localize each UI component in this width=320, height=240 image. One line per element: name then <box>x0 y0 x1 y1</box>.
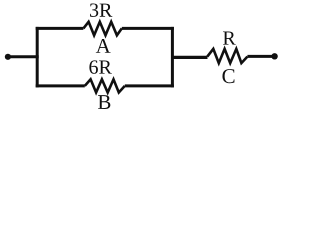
label: designator C <box>222 69 234 83</box>
label: designator B <box>98 95 110 109</box>
wire: top branch left segment <box>36 27 84 30</box>
resistor A value 3R <box>83 22 121 36</box>
label: value R of resistor C <box>223 32 236 45</box>
resistor B value 6R <box>85 79 125 92</box>
resistor C value R <box>207 49 247 63</box>
wire: middle lead from junction to resistor C <box>172 56 207 59</box>
label: designator A <box>96 39 111 53</box>
wire: bottom branch left segment <box>36 84 85 87</box>
label: value 3R of resistor A <box>90 3 112 16</box>
wire: right lead to terminal <box>247 55 274 58</box>
wire: left branch vertical <box>36 27 39 88</box>
wire: right branch vertical <box>171 27 174 88</box>
wire: bottom branch right segment <box>125 84 174 87</box>
node: left terminal <box>5 54 11 60</box>
node: right terminal <box>271 53 277 59</box>
wire: top branch right segment <box>122 27 174 30</box>
label: value 6R of resistor B <box>89 60 111 73</box>
wire: left lead from terminal to junction <box>8 55 39 58</box>
